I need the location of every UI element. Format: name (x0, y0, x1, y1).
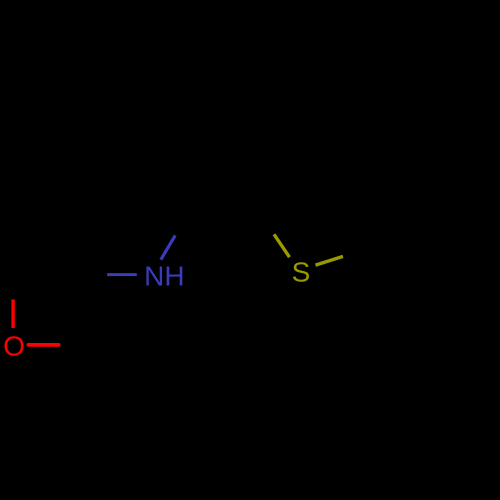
bond S-C5 (diagonal half-bond, thiophene) (316, 256, 344, 265)
bond N-CH2 (diagonal half-bond from NH) (161, 235, 175, 259)
svg-text:O: O (3, 331, 25, 362)
svg-text:NH: NH (144, 260, 184, 291)
bond C3-N (horizontal half-bond to NH) (107, 273, 137, 276)
bond O-C (horizontal half-bond, oxetane) (28, 343, 58, 347)
svg-text:S: S (292, 257, 311, 288)
bond O-C (vertical half-bond, oxetane) (11, 300, 14, 329)
bond S-C2 (diagonal half-bond, thiophene) (274, 234, 290, 257)
